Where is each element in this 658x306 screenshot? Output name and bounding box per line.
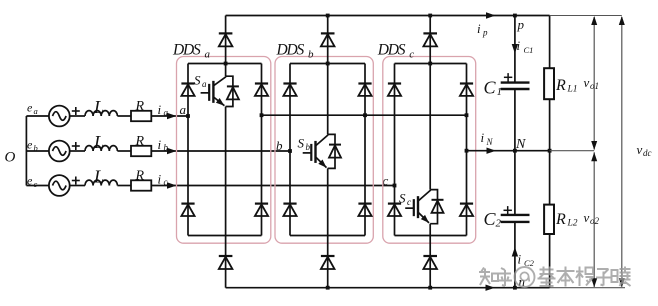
svg-text:C: C <box>484 78 497 98</box>
resistor R (phase a) <box>131 111 151 121</box>
label R (phase b) <box>135 134 145 149</box>
wire DDS_a top bus <box>188 62 262 66</box>
svg-text:L: L <box>93 167 104 187</box>
inductor L (phase a) <box>85 111 117 116</box>
wire DDS_a centre branch upper <box>225 64 227 77</box>
wire DDS_a to top rail <box>225 16 227 64</box>
polarity + (phase b) <box>72 142 80 150</box>
svg-text:dc: dc <box>643 148 652 158</box>
diode DDS_a upper-left <box>181 84 194 96</box>
DDS_c module outline box <box>383 57 476 244</box>
label v_o1 <box>584 75 600 91</box>
current arrow i_b <box>158 137 177 154</box>
svg-text:i: i <box>518 252 522 267</box>
junction bottom rail / phase c <box>428 286 432 290</box>
junction top rail / phase b <box>326 14 330 18</box>
junction bottom rail / dc bus <box>513 286 517 290</box>
svg-text:b: b <box>306 142 311 152</box>
svg-text:R: R <box>135 134 145 149</box>
svg-text:b: b <box>276 138 283 153</box>
label L (phase b) <box>93 132 104 152</box>
wire DDS_a left leg <box>187 64 189 236</box>
DDS_a module outline box <box>177 57 271 244</box>
svg-text:e: e <box>27 138 33 152</box>
wire DDS_a right leg <box>261 64 263 236</box>
diode top (phase c) <box>423 33 437 46</box>
wire dc bus middle <box>514 90 516 214</box>
label R (phase c) <box>135 169 145 184</box>
wire DDS_c to bottom rail <box>429 236 431 288</box>
wire phase b from O bus <box>26 150 49 152</box>
antiparallel diode of S_b <box>328 134 341 168</box>
junction N line / DDS_c right leg <box>465 149 469 153</box>
polarity + (phase c) <box>72 177 80 185</box>
junction bottom rail / phase b <box>326 286 330 290</box>
wire phase b source to inductor <box>70 150 85 152</box>
svg-text:e: e <box>27 101 33 115</box>
svg-text:DDS: DDS <box>276 42 305 59</box>
antiparallel diode of S_c <box>430 190 443 224</box>
wire DDS_c top bus <box>395 62 467 66</box>
wire DDS_c left leg <box>394 64 396 236</box>
svg-text:a: a <box>202 79 207 89</box>
label v_dc <box>637 142 652 158</box>
wire DDS_b bottom bus <box>290 235 365 237</box>
diode bottom (phase c) <box>423 256 437 269</box>
wire phase c from O bus <box>26 185 49 187</box>
label R_L2 <box>555 211 578 229</box>
wire DDS_b left leg <box>289 64 291 236</box>
svg-text:N: N <box>515 137 526 152</box>
svg-text:i: i <box>158 172 162 187</box>
diode DDS_b lower-left <box>283 204 296 216</box>
svg-text:DDS: DDS <box>172 42 201 59</box>
wire DDS_b right leg <box>364 64 366 236</box>
svg-text:i: i <box>158 102 162 117</box>
capacitor C1 <box>501 73 530 89</box>
wire N line extension <box>550 150 595 152</box>
wire DDS_a to bottom rail <box>225 236 227 288</box>
current arrow i_c <box>158 172 177 189</box>
wire DDS_a centre branch lower <box>225 107 227 236</box>
svg-text:o1: o1 <box>590 81 599 91</box>
label S_b <box>298 136 311 153</box>
label R_L1 <box>555 77 578 95</box>
node b <box>276 138 292 153</box>
wire phase b to node b <box>151 150 290 152</box>
AC source e_a <box>49 106 70 127</box>
wire DDS_c right leg <box>466 64 468 236</box>
label S_c <box>399 191 411 208</box>
svg-text:2: 2 <box>496 218 502 230</box>
current arrow i_N <box>481 130 497 154</box>
junction tie DDS_c <box>465 113 469 117</box>
wire phase c to node c <box>151 185 394 187</box>
svg-text:v: v <box>584 210 590 225</box>
label L (phase a) <box>93 97 104 117</box>
diode DDS_a lower-left <box>181 204 194 216</box>
wire neutral tie (right legs) <box>262 114 467 116</box>
resistor R_L2 <box>544 205 554 234</box>
current arrow i_a <box>158 102 177 119</box>
voltage arrow v_o2 <box>591 152 597 287</box>
wire DDS_b centre branch upper <box>327 64 329 135</box>
svg-text:a: a <box>180 102 187 117</box>
svg-text:S: S <box>298 136 305 151</box>
svg-text:p: p <box>517 17 525 32</box>
wire DDS_c centre branch upper <box>429 64 431 190</box>
diode DDS_b upper-left <box>283 84 296 96</box>
AC source e_c <box>49 175 70 196</box>
junction top rail / dc bus <box>513 14 517 18</box>
wire top rail P <box>226 15 550 17</box>
wire top rail extension <box>550 15 622 17</box>
svg-text:a: a <box>205 49 211 61</box>
IGBT S_a <box>201 77 226 106</box>
wire dc bus lower <box>514 223 516 288</box>
wire DDS_c to top rail <box>429 16 431 64</box>
svg-text:R: R <box>555 211 566 228</box>
svg-text:R: R <box>135 169 145 184</box>
wire load branch middle <box>549 99 551 204</box>
current arrow on bottom rail <box>486 285 496 291</box>
junction top rail / phase c <box>428 14 432 18</box>
inductor L (phase b) <box>85 146 117 151</box>
wire DDS_b to top rail <box>327 16 329 64</box>
polarity + (phase a) <box>72 107 80 115</box>
diode bottom (phase a) <box>219 256 233 269</box>
voltage arrow v_o1 <box>591 16 597 150</box>
current arrow i_C1 <box>512 38 534 55</box>
wire phase c inductor to resistor <box>117 185 131 187</box>
svg-text:O: O <box>5 150 16 166</box>
label e_b <box>27 138 38 154</box>
svg-text:b: b <box>164 143 169 153</box>
wire bottom rail extension <box>550 287 625 289</box>
junction N line / load branch <box>548 149 552 153</box>
diode DDS_a lower-right <box>255 204 268 216</box>
wire source neutral bus <box>25 116 27 186</box>
label e_c <box>27 174 38 190</box>
label DDS_b <box>276 42 315 61</box>
wire DDS_a bottom bus <box>188 235 262 237</box>
diode DDS_c lower-left <box>388 204 401 216</box>
current arrow i_p <box>477 12 496 37</box>
svg-text:N: N <box>486 137 494 147</box>
svg-text:i: i <box>517 38 521 53</box>
wire DDS_b centre branch lower <box>327 168 329 235</box>
junction tie DDS_b <box>363 113 367 117</box>
svg-text:b: b <box>308 49 314 61</box>
svg-text:c: c <box>164 177 168 187</box>
wire DDS_b to bottom rail <box>327 236 329 288</box>
svg-text:c: c <box>409 49 414 61</box>
capacitor C2 <box>501 206 530 222</box>
svg-text:i: i <box>158 137 162 152</box>
inductor L (phase c) <box>85 180 117 185</box>
svg-text:v: v <box>584 75 590 90</box>
diode top (phase b) <box>321 33 335 46</box>
svg-text:c: c <box>34 179 38 189</box>
diode DDS_c lower-right <box>460 204 473 216</box>
svg-text:o2: o2 <box>590 216 600 226</box>
wire phase b inductor to resistor <box>117 150 131 152</box>
wire phase a inductor to resistor <box>117 115 131 117</box>
svg-text:L: L <box>93 132 104 152</box>
diode DDS_c upper-left <box>388 84 401 96</box>
wire phase a to node a <box>151 115 188 117</box>
node c <box>383 173 397 188</box>
resistor R (phase b) <box>131 146 151 156</box>
wire phase a source to inductor <box>70 115 85 117</box>
node N <box>515 137 526 152</box>
wire load branch upper <box>549 16 551 69</box>
label C_1 <box>484 78 503 99</box>
antiparallel diode of S_a <box>226 76 239 106</box>
diode DDS_b upper-right <box>358 84 371 96</box>
svg-text:C1: C1 <box>524 45 534 55</box>
wire N line <box>467 150 550 152</box>
wire dc bus upper <box>514 16 516 82</box>
junction tie DDS_a <box>260 113 264 117</box>
label DDS_a <box>172 42 211 61</box>
diode DDS_c upper-right <box>460 84 473 96</box>
svg-text:c: c <box>407 197 411 207</box>
svg-text:S: S <box>194 73 201 88</box>
node n <box>519 274 526 289</box>
wire load branch lower <box>549 234 551 288</box>
wire phase c source to inductor <box>70 185 85 187</box>
label L (phase c) <box>93 167 104 187</box>
label C_2 <box>484 209 502 230</box>
svg-text:p: p <box>482 28 488 38</box>
svg-text:a: a <box>34 106 38 116</box>
svg-text:i: i <box>477 21 481 36</box>
wire DDS_c centre branch lower <box>429 224 431 236</box>
diode DDS_b lower-right <box>358 204 371 216</box>
label R (phase a) <box>135 99 145 114</box>
svg-text:1: 1 <box>497 86 503 98</box>
watermark 知乎@基本杨子曦 <box>479 267 631 288</box>
AC source e_b <box>49 141 70 162</box>
wire bottom rail n <box>226 287 550 289</box>
svg-text:L2: L2 <box>567 219 578 229</box>
node p <box>517 17 525 32</box>
diode DDS_a upper-right <box>255 84 268 96</box>
diode top (phase a) <box>219 33 233 46</box>
svg-text:S: S <box>399 191 406 206</box>
wire DDS_c bottom bus <box>395 235 467 237</box>
diode bottom (phase b) <box>321 256 335 269</box>
resistor R_L1 <box>544 68 554 99</box>
junction N line / dc bus (node N) <box>513 149 517 153</box>
IGBT S_c <box>405 190 430 223</box>
svg-text:R: R <box>135 99 145 114</box>
resistor R (phase c) <box>131 180 151 190</box>
voltage arrow v_dc <box>619 16 625 287</box>
node a <box>180 102 190 118</box>
svg-text:L: L <box>93 97 104 117</box>
svg-text:a: a <box>164 108 169 118</box>
svg-text:R: R <box>555 77 566 94</box>
node O (source neutral) <box>5 150 16 166</box>
current arrow i_C2 <box>512 247 535 268</box>
DDS_b module outline box <box>275 57 373 244</box>
label e_a <box>27 101 38 117</box>
wire DDS_b top bus <box>290 62 365 66</box>
svg-text:i: i <box>481 130 485 145</box>
svg-text:L1: L1 <box>567 85 578 95</box>
IGBT S_b <box>303 135 328 168</box>
label S_a <box>194 73 207 90</box>
wire phase a from O bus <box>26 115 49 117</box>
label v_o2 <box>584 210 600 226</box>
svg-text:DDS: DDS <box>377 42 406 59</box>
svg-text:v: v <box>637 142 643 157</box>
label DDS_c <box>377 42 415 61</box>
